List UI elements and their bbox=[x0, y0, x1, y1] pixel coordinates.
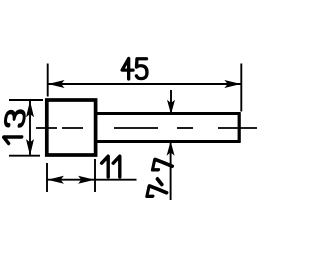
dim 11 extension line left bbox=[46, 163, 48, 192]
dim text 7,7 (rotated) bbox=[147, 159, 174, 196]
dim text 11 bbox=[102, 156, 120, 177]
part shaft bottom edge bbox=[95, 140, 240, 143]
arrowhead 45 left bbox=[48, 80, 65, 88]
arrowhead 13 down bbox=[26, 139, 34, 156]
dim 7.7 leader line lower bbox=[170, 142, 172, 200]
dim 11 extension line right bbox=[94, 159, 96, 192]
part head rectangle bbox=[47, 100, 96, 155]
dim text 13 (rotated) bbox=[2, 112, 25, 144]
centerline dash 4 bbox=[177, 127, 193, 129]
centerline dash 1 bbox=[36, 127, 57, 129]
arrowhead 11 right bbox=[78, 176, 95, 184]
arrowhead 7.7 down bbox=[167, 100, 175, 115]
part shaft right end edge bbox=[238, 112, 241, 143]
arrowhead 11 left bbox=[47, 176, 64, 184]
arrowhead 45 right bbox=[224, 80, 241, 88]
dim 13 extension tick top bbox=[9, 99, 43, 101]
dim 7.7 leader line upper bbox=[170, 90, 172, 113]
part shaft top edge bbox=[95, 112, 240, 115]
centerline dash 2 bbox=[62, 127, 83, 129]
centerline dash 3 bbox=[114, 127, 158, 129]
dim 11 dimension line bbox=[47, 179, 137, 181]
dim 13 dimension line bbox=[29, 100, 31, 156]
dim 45 extension line right bbox=[240, 64, 242, 112]
dim 45 dimension line bbox=[48, 83, 242, 85]
centerline dash 5 bbox=[218, 127, 257, 129]
arrowhead 13 up bbox=[26, 101, 34, 118]
arrowhead 7.7 up bbox=[167, 141, 175, 156]
dim 13 extension tick bottom bbox=[9, 155, 40, 157]
dim text 45 bbox=[122, 58, 147, 79]
dim 45 extension line left bbox=[47, 64, 49, 97]
